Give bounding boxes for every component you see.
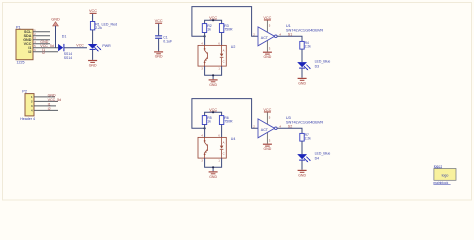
svg-text:D1: D1 (62, 34, 67, 38)
power port VCC (top divider) (209, 16, 217, 21)
svg-text:750R: 750R (224, 28, 233, 32)
optocoupler U2 (198, 45, 235, 66)
wire D1 cathode to VCC (64, 47, 87, 49)
wire pin1 SCL (33, 31, 50, 33)
svg-text:1k: 1k (207, 28, 211, 32)
resistor R4 2.2k (300, 41, 311, 49)
svg-text:D3: D3 (315, 65, 320, 69)
svg-text:VCC: VCC (155, 19, 163, 23)
net label I2 (P2) (48, 107, 51, 111)
resistor R2 1k (202, 24, 211, 33)
net label VCC (76, 43, 84, 47)
net label GND (P2) (48, 93, 56, 97)
node R2 bottom junction (top) (204, 35, 206, 37)
node R5 bottom junction (bottom) (204, 127, 206, 129)
svg-text:PWR: PWR (102, 44, 111, 48)
wire R3 to U2 pin (221, 33, 223, 46)
power port VCC (bottom divider) (209, 108, 217, 113)
wire pin4 VCC (33, 43, 50, 45)
wire R5 to U4 pin (204, 125, 206, 138)
wire R4 to LED D3 (301, 49, 303, 62)
wire VCC/GND pin through gate U3 (266, 113, 268, 144)
wire pin6 I2 (33, 51, 58, 53)
LED D2 PWR (88, 44, 111, 52)
ground (U2 top) (209, 79, 218, 87)
wire P2 pin1 (34, 96, 55, 98)
diode D1 SS14 (58, 34, 72, 59)
net label VCC_5d (P2) (48, 98, 62, 102)
wire R6 to U4 pin (221, 125, 223, 138)
power port VCC (gate U3) (263, 108, 271, 113)
svg-text:SS14: SS14 (64, 56, 72, 60)
svg-text:GND: GND (155, 55, 163, 59)
svg-text:U4: U4 (231, 137, 236, 141)
wire LED D4 to GND (301, 161, 303, 170)
svg-text:Header 4: Header 4 (20, 117, 35, 121)
svg-text:750R: 750R (224, 120, 233, 124)
wire LED D3 to GND (301, 69, 303, 78)
wire VCC/GND pin through gate U1 (266, 21, 268, 52)
wire U2 emitter pins to GND (top) (205, 66, 222, 79)
svg-text:logo: logo (442, 173, 449, 177)
ground (LED D3) (298, 78, 307, 86)
svg-text:LED_Blue: LED_Blue (315, 151, 331, 155)
LED D3 LED_Blue (297, 59, 330, 70)
connector P2 Header 4 (20, 90, 35, 121)
wire P2 pin3 (34, 105, 56, 107)
svg-text:A: A (223, 49, 225, 53)
svg-text:GND: GND (264, 55, 272, 59)
net label VCC_5d (40, 44, 54, 48)
pin number 1 (U2 bottom right) (218, 67, 220, 70)
wire VCC tee (top) (205, 20, 222, 23)
svg-text:S2: S2 (288, 124, 292, 128)
svg-text:GND: GND (51, 17, 60, 21)
wire VCC tee (bottom) (205, 112, 222, 115)
svg-text:GND: GND (89, 63, 97, 67)
svg-text:I2: I2 (42, 51, 45, 55)
svg-text:VCC: VCC (76, 43, 84, 47)
resistor R6 750R (219, 116, 233, 125)
net label I1 (P2) (48, 102, 51, 106)
svg-text:ACT: ACT (261, 128, 269, 132)
power port GND arrow (51, 17, 60, 26)
ground (C1) (154, 51, 163, 58)
wire R1 to LED (92, 30, 94, 44)
svg-text:2.2k: 2.2k (95, 26, 102, 30)
pin number 3 (U2 bottom left) (201, 67, 203, 70)
svg-text:mainblock: mainblock (433, 181, 448, 185)
svg-text:VCC: VCC (263, 16, 271, 20)
wire P2 pin2 (34, 100, 58, 102)
wire R2 to U2 pin (204, 33, 206, 46)
wire gate output to R4 (top) (277, 36, 302, 41)
svg-text:LED_Red: LED_Red (102, 22, 118, 26)
wire gate output to R7 (bottom) (277, 128, 302, 133)
svg-text:VCC_5d: VCC_5d (48, 98, 62, 102)
wire P2 pin4 (34, 109, 58, 111)
svg-text:ACT: ACT (261, 36, 269, 40)
sheet symbol logo1 (433, 164, 456, 184)
node VCC tee (top) (212, 19, 214, 21)
net label S1 (288, 32, 292, 36)
pin number 6 (U4 top right) (218, 134, 220, 137)
svg-text:P2: P2 (22, 90, 27, 94)
wire GND arrow to diode node (55, 26, 57, 48)
wire LED to GND (92, 50, 94, 60)
power port VCC (R1 chain) (89, 9, 97, 21)
svg-text:2.2k: 2.2k (305, 45, 312, 49)
pin number 1 (U4 bottom right) (218, 159, 220, 162)
svg-text:VCC: VCC (263, 108, 271, 112)
capacitor C1 0.1uF (155, 35, 172, 43)
ground (gate U1) (263, 52, 272, 60)
wire pin2 SDA (33, 35, 50, 37)
node U2 gnd join (top) (212, 74, 214, 76)
wire pin3 GND (33, 39, 50, 41)
svg-text:GND: GND (298, 173, 306, 177)
resistor R1 LED_Red 2.2k (90, 22, 117, 31)
pin number 6 (U2 top right) (218, 42, 220, 45)
svg-text:U2: U2 (231, 45, 236, 49)
ground (gate U3) (263, 144, 272, 152)
wire pin5 I1 (33, 47, 58, 49)
LED D4 LED_Blue (297, 151, 330, 162)
svg-text:GND: GND (298, 81, 306, 85)
svg-text:A: A (223, 141, 225, 145)
resistor R7 2.2k (300, 133, 311, 141)
svg-text:0.1uF: 0.1uF (163, 39, 172, 43)
wire loop to gate input (bottom) (192, 99, 258, 129)
svg-text:GND: GND (264, 147, 272, 151)
wire C1 to GND (158, 39, 160, 52)
pin number 4 (U4 top left) (201, 134, 203, 137)
wire loop to gate input (top) (192, 7, 258, 37)
ground (LED D4) (298, 170, 307, 178)
node VCC tee (bottom) (212, 111, 214, 113)
ground (U4 bottom) (209, 171, 218, 179)
svg-text:C: C (223, 152, 225, 156)
ground (PWR LED) (88, 60, 97, 68)
pin number 4 (U2 top left) (201, 42, 203, 45)
power port VCC (gate U1) (263, 16, 271, 21)
optocoupler U4 (198, 137, 235, 158)
svg-text:S1: S1 (288, 32, 292, 36)
svg-text:C: C (223, 60, 225, 64)
svg-text:1k: 1k (207, 120, 211, 124)
resistor R5 1k (202, 116, 211, 125)
svg-text:GND: GND (48, 93, 56, 97)
wire U4 emitter pins to GND (bottom) (205, 158, 222, 171)
svg-text:D4: D4 (315, 157, 320, 161)
net label I1 (42, 48, 45, 52)
svg-text:P1: P1 (16, 26, 21, 30)
svg-text:I2: I2 (28, 50, 31, 54)
svg-text:GND: GND (209, 175, 217, 179)
wire R7 to LED D4 (301, 141, 303, 154)
svg-text:2.2k: 2.2k (305, 137, 312, 141)
power port VCC (C1) (155, 19, 163, 35)
connector P1 (16, 26, 36, 65)
pin number 3 (U4 bottom left) (201, 159, 203, 162)
net label GND (40, 40, 48, 44)
svg-text:LED_Blue: LED_Blue (315, 59, 331, 63)
resistor R3 750R (219, 24, 233, 33)
svg-text:I2: I2 (48, 107, 51, 111)
svg-text:1225: 1225 (17, 61, 25, 65)
net label I2 (42, 51, 45, 55)
node U4 gnd join (bottom) (212, 166, 214, 168)
net label S2 (288, 124, 292, 128)
svg-text:GND: GND (209, 83, 217, 87)
inverter gate U1 SN74LVC1G04DBVR (253, 23, 323, 50)
svg-text:VCC: VCC (89, 9, 97, 13)
inverter gate U3 SN74LVC1G04DBVR (253, 115, 323, 142)
svg-text:I1: I1 (48, 102, 51, 106)
